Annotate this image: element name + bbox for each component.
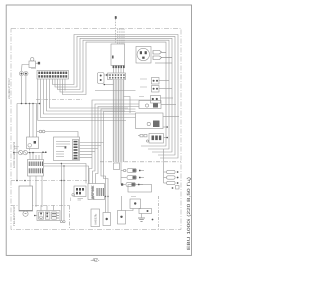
- generator pickup circle: [23, 211, 28, 216]
- lamp L3: [18, 150, 22, 154]
- regulator box B1: [27, 137, 39, 149]
- exciter coil 2: [45, 212, 50, 219]
- plug P1: [153, 51, 172, 64]
- right column comp b: [152, 86, 173, 93]
- winding taps: [57, 213, 59, 218]
- wire top loop 2: [55, 36, 175, 155]
- wire comp d east: [161, 104, 176, 106]
- fuse B3: [164, 181, 179, 184]
- wire to ign connector: [45, 132, 78, 138]
- right column comp c: [151, 96, 174, 104]
- wire riser 5: [104, 112, 136, 213]
- wire riser 1: [89, 100, 151, 184]
- main winding: [52, 212, 57, 219]
- wire harness staircase 2: [47, 79, 126, 111]
- svg-text:EBU 1000i (220 В,50 Гц): EBU 1000i (220 В,50 Гц): [186, 176, 191, 250]
- svg-text:-42-: -42-: [91, 258, 100, 264]
- wire lamp drops: [21, 76, 23, 104]
- wire riser 3: [96, 107, 140, 184]
- wire coil leads down: [29, 176, 31, 186]
- page border frame: [6, 5, 191, 255]
- cluster west terminal: [34, 215, 36, 217]
- wire coil leads up: [29, 153, 31, 160]
- wire stator link 1: [44, 164, 87, 184]
- fuse B2: [164, 176, 179, 179]
- wire center trunk down: [114, 80, 124, 164]
- section divider (ignition block, left): [11, 180, 90, 182]
- fuse stack B feeder: [163, 149, 165, 183]
- svg-text:ГЕНЕРАТОР: ГЕНЕРАТОР: [13, 206, 16, 226]
- wire riser 4: [101, 109, 136, 213]
- control module K2b: [136, 113, 164, 129]
- wire riser 2: [93, 104, 140, 184]
- box C5: [130, 199, 141, 209]
- switch S1 bar: [139, 209, 152, 214]
- plug box C4: [118, 211, 126, 225]
- wire top loop 1: [53, 35, 179, 159]
- wire trunk west stub: [104, 84, 114, 86]
- ignition module K3: [149, 134, 164, 144]
- ign connector J2 (dark vertical): [73, 140, 79, 160]
- wire lamp row: [15, 152, 19, 154]
- lamp filament dots: [21, 73, 27, 75]
- right column comp a: [152, 78, 170, 85]
- wire gen output pair: [60, 164, 62, 221]
- svg-text:БЛОК ЗАЖИГАНИЯ: БЛОК ЗАЖИГАНИЯ: [13, 142, 16, 168]
- control module K2a: [139, 101, 161, 109]
- exciter coil 1: [39, 212, 44, 219]
- lamp L1: [19, 72, 23, 76]
- wire crossing h90: [95, 90, 136, 92]
- junction dots on divider: [16, 180, 18, 182]
- section divider (generator box top): [11, 205, 70, 207]
- relay K1 (top-left): [22, 58, 41, 71]
- wire harness staircase 4: [41, 79, 136, 118]
- lamp L2: [24, 72, 28, 76]
- inverter divider dash: [36, 99, 82, 101]
- generator G winding box: [19, 186, 33, 211]
- wire C5 drop: [126, 209, 134, 211]
- small twin terminals: [39, 130, 42, 133]
- op panel box U1: [111, 44, 125, 66]
- connector pins below panel: [113, 66, 125, 69]
- engine control box: [128, 185, 152, 193]
- wire bus drops: [16, 104, 18, 181]
- svg-text:ДАТЧИК: ДАТЧИК: [92, 185, 95, 199]
- diode D1 small comp: [98, 73, 111, 84]
- fuse B1: [164, 170, 179, 173]
- wire trunk east branch: [124, 97, 131, 114]
- sensor E1: [74, 186, 86, 197]
- pilot A3: [121, 182, 143, 186]
- schematic dash-dot boundary: [11, 29, 181, 230]
- wire ign connector east leads: [80, 142, 104, 144]
- wire harness staircase 1: [50, 79, 129, 108]
- connector CN2 (center bar): [108, 73, 126, 80]
- lamp L4: [23, 150, 27, 154]
- wire C4 lead: [121, 196, 123, 211]
- generator coil cluster: [37, 211, 60, 221]
- pilot stack A feeder: [120, 163, 122, 185]
- ignition coil T1: [28, 160, 44, 177]
- wire cluster leads: [40, 206, 42, 211]
- lamp cross marks: [19, 151, 27, 154]
- svg-text:КАБЕЛЬ: КАБЕЛЬ: [94, 213, 98, 224]
- wire top loop 4: [60, 40, 169, 149]
- CDI module box: [54, 137, 80, 161]
- wire harness staircase 5: [38, 79, 126, 121]
- svg-text:ИНВЕРТОР: ИНВЕРТОР: [8, 78, 11, 99]
- harness band: [113, 80, 125, 163]
- ground: [138, 218, 145, 221]
- inverter box INV: [88, 184, 105, 200]
- wire panel trunk: [114, 68, 124, 73]
- gen output terminals: [60, 221, 62, 223]
- label specks left: [14, 147, 19, 148]
- section divider (right lower vertical): [158, 196, 160, 230]
- wire comp e east: [163, 116, 179, 118]
- AC outlet R1: [136, 47, 151, 64]
- connector CN1 (long bar): [37, 71, 69, 80]
- small box M: [114, 163, 120, 170]
- wire top loop 5: [63, 42, 167, 146]
- label block lines: [56, 142, 70, 157]
- section divider (generator right edge): [69, 206, 71, 230]
- small box below stack B: [176, 186, 180, 190]
- wire top loop 3: [58, 38, 173, 152]
- section divider (engine area, right): [100, 161, 181, 163]
- pilot A2: [121, 175, 144, 179]
- wire battery dashed leads: [116, 16, 124, 44]
- plug box C3: [103, 213, 111, 226]
- wire harness staircase 3: [44, 79, 136, 114]
- wire bar drops short: [64, 79, 66, 91]
- left bus: [17, 103, 40, 105]
- wire to ground: [141, 214, 143, 218]
- pilot A1: [121, 168, 144, 172]
- terminal tick: [115, 16, 117, 19]
- tiny label specks: [31, 69, 147, 201]
- cable box C2: [91, 209, 100, 227]
- wire stator link 2: [44, 166, 89, 184]
